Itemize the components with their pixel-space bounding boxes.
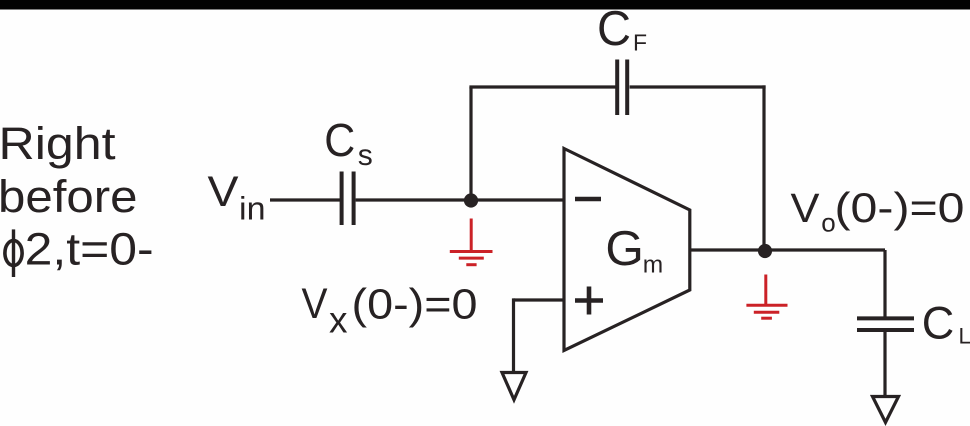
label CF (597, 2, 647, 56)
svg-text:C: C (597, 2, 631, 56)
svg-text:F: F (633, 30, 647, 56)
svg-text:s: s (358, 139, 373, 172)
label Vo(0-)=0 (791, 184, 965, 238)
node X junction (464, 193, 478, 207)
svg-text:V: V (208, 168, 239, 216)
capacitor CL (857, 318, 914, 330)
label Vx(0-)=0 (302, 280, 478, 340)
svg-text:m: m (643, 252, 663, 279)
label Gm (605, 222, 663, 279)
wire CL to ground arrow (883, 332, 886, 397)
wire output node down-right to CL (883, 250, 886, 318)
wire plus input (514, 298, 565, 372)
svg-text:Right: Right (0, 118, 116, 169)
node Vin label (208, 168, 266, 227)
svg-text:G: G (605, 222, 644, 276)
ground arrow at plus input (502, 373, 526, 400)
ground arrow at CL (873, 397, 899, 423)
annotation: Right before phi2, t=0- (0, 118, 154, 277)
wire feedback top-right from CF to corner (630, 85, 766, 88)
op-amp Gm body (564, 149, 690, 351)
ground (red) at output node (746, 275, 787, 319)
node Vo junction (758, 244, 772, 258)
svg-text:(0-)=0: (0-)=0 (352, 280, 478, 328)
svg-text:C: C (922, 297, 955, 348)
svg-text:(0-)=0: (0-)=0 (835, 184, 965, 231)
svg-text:before: before (0, 171, 138, 222)
svg-text:L: L (959, 324, 970, 349)
svg-text:x: x (329, 299, 348, 340)
svg-text:V: V (302, 280, 328, 328)
svg-text:C: C (324, 114, 355, 166)
op-amp plus input marker (575, 287, 603, 315)
label Cs (324, 114, 373, 172)
svg-text:V: V (791, 185, 821, 231)
svg-text:in: in (239, 191, 266, 227)
capacitor Cs (342, 172, 354, 226)
svg-text:2,t=0-: 2,t=0- (25, 224, 154, 275)
wire Vin to Cs (270, 198, 340, 201)
wire node X up to feedback (469, 87, 472, 202)
ground (red) at node X (450, 219, 493, 265)
op-amp minus input marker (575, 197, 601, 202)
wire Cs to op-amp minus input through node X (356, 198, 564, 201)
wire feedback right vertical down to output node (762, 85, 765, 250)
label CL (922, 297, 970, 348)
wire feedback top-left to CF (469, 85, 615, 88)
wire output from op-amp through node Vo (690, 248, 885, 251)
capacitor CF (617, 60, 627, 116)
